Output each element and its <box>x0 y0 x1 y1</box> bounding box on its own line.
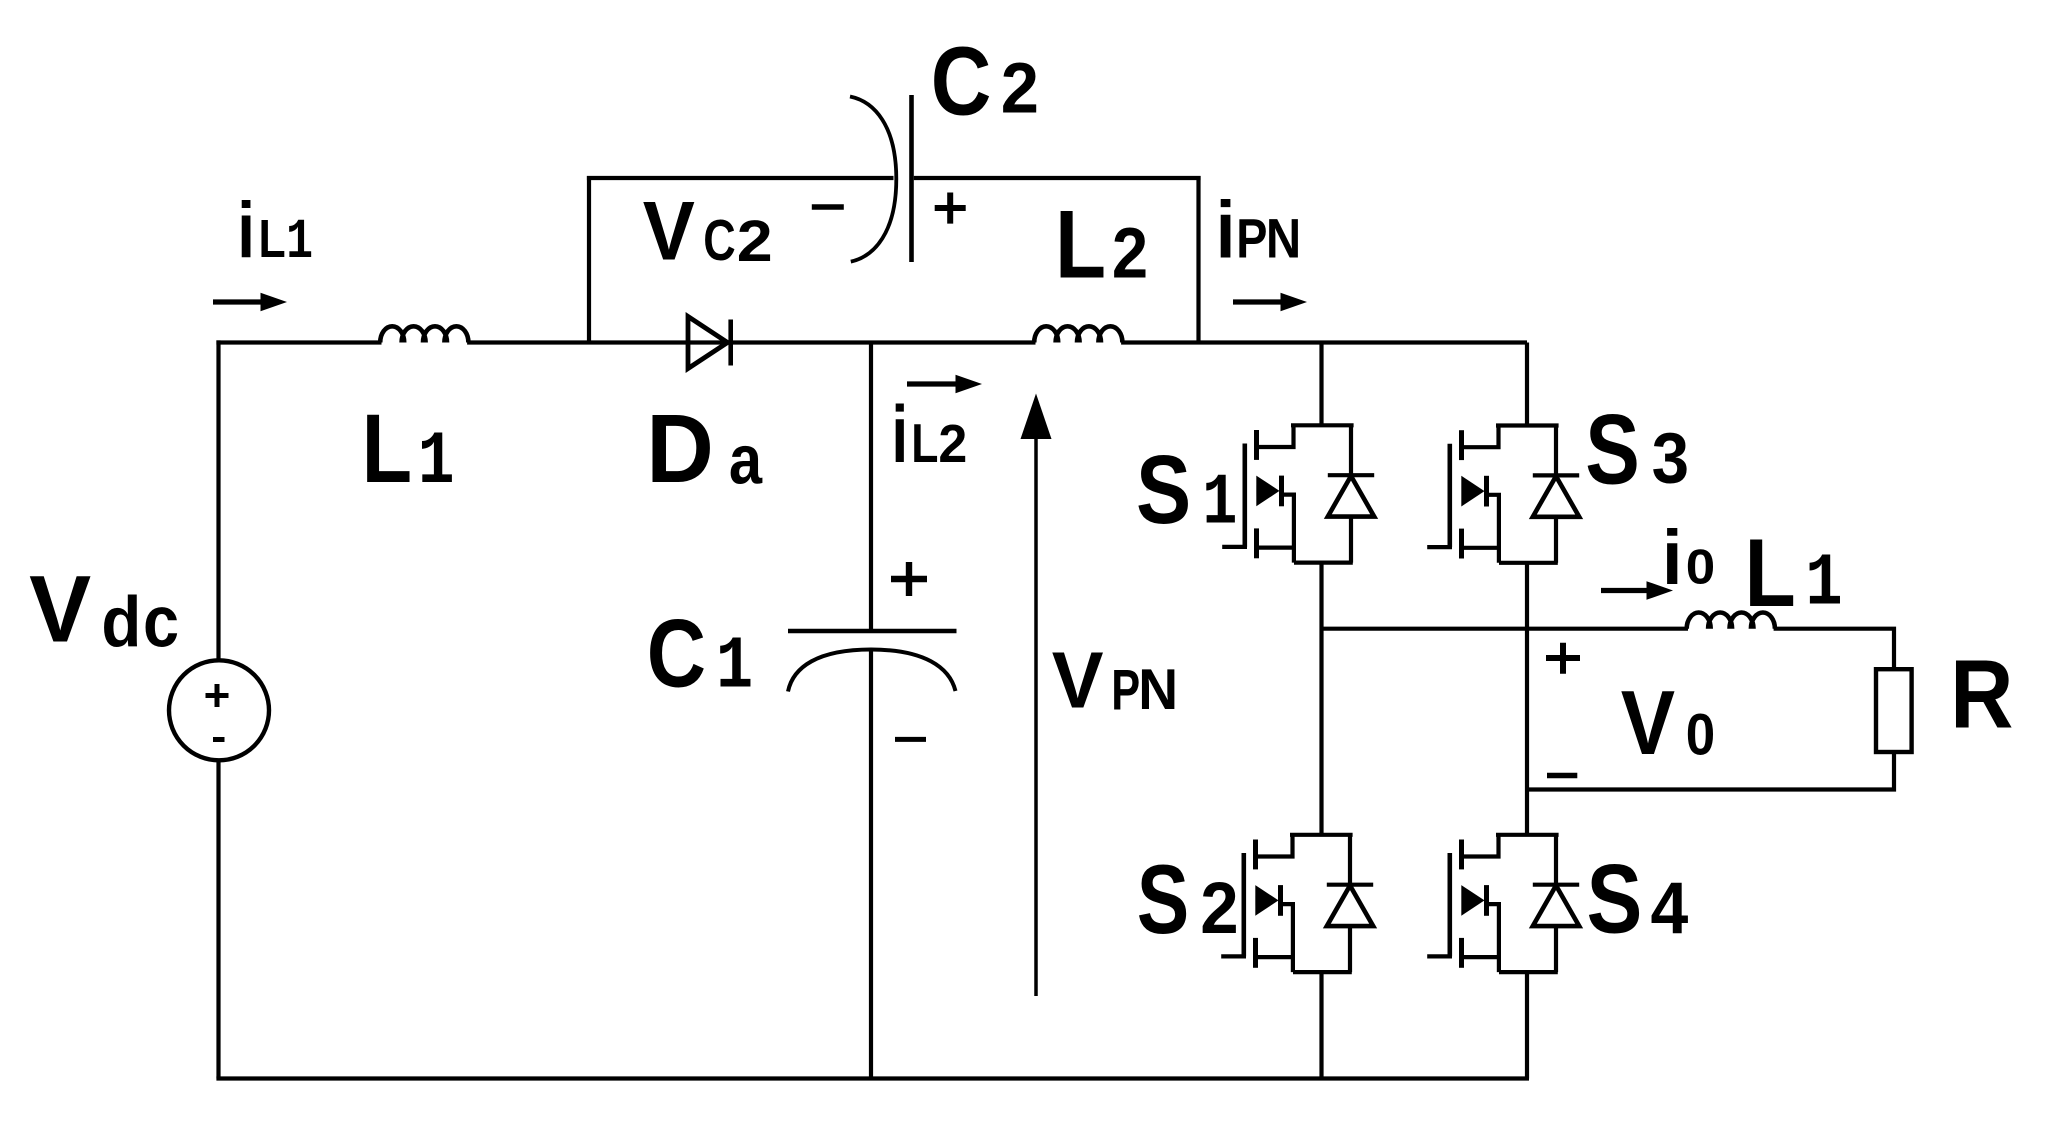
svg-text:1: 1 <box>418 420 455 506</box>
wire left leg drain stub <box>1319 343 1323 426</box>
svg-text:2: 2 <box>1001 47 1039 128</box>
svg-text:L: L <box>911 413 938 475</box>
svg-text:C: C <box>931 27 992 136</box>
wire top rail right segment <box>1121 340 1527 344</box>
svg-text:D: D <box>646 394 714 503</box>
V0 minus sign <box>1547 773 1577 779</box>
wire right leg drain stub <box>1525 343 1529 426</box>
wire left leg middle <box>1319 563 1323 835</box>
wire top rail middle segment <box>467 340 1035 344</box>
svg-text:2: 2 <box>737 209 773 274</box>
wire C1 branch upper <box>869 343 873 632</box>
svg-text:C: C <box>647 600 706 708</box>
svg-text:N: N <box>1266 209 1301 270</box>
svg-text:d: d <box>101 582 141 662</box>
inductor L1 <box>380 326 468 342</box>
capacitor C1 curved plate <box>788 650 956 692</box>
C1 plus sign <box>891 562 927 596</box>
wire right leg middle <box>1525 563 1529 835</box>
C2 plus sign <box>935 193 966 224</box>
svg-text:a: a <box>729 421 763 498</box>
svg-text:N: N <box>1138 657 1178 721</box>
svg-text:L: L <box>362 395 412 504</box>
svg-text:1: 1 <box>1805 543 1842 626</box>
svg-text:2: 2 <box>1112 214 1148 293</box>
svg-text:0: 0 <box>1686 701 1715 767</box>
wire C2-branch left vertical <box>587 176 591 345</box>
svg-text:V: V <box>1052 635 1104 724</box>
wire C2-branch top left segment <box>587 176 894 180</box>
svg-text:i: i <box>1662 515 1683 601</box>
svg-text:L: L <box>1745 520 1796 628</box>
svg-text:1: 1 <box>1202 462 1237 545</box>
wire C2-branch right vertical <box>1196 176 1200 345</box>
svg-text:2: 2 <box>1200 868 1238 949</box>
svg-text:S: S <box>1585 395 1640 505</box>
svg-text:S: S <box>1137 843 1189 953</box>
wire phase output left part <box>1322 627 1689 631</box>
svg-text:L: L <box>259 209 286 269</box>
transistor S3 <box>1427 426 1579 563</box>
transistor S1 <box>1222 425 1374 562</box>
wire right leg source stub <box>1525 972 1529 1079</box>
iL2 current arrow <box>907 381 960 386</box>
i0 current arrow <box>1601 588 1651 593</box>
svg-text:V: V <box>29 556 91 662</box>
svg-text:S: S <box>1136 436 1191 545</box>
transistor S2 <box>1221 835 1373 972</box>
svg-text:R: R <box>1950 639 2013 748</box>
wire phase output right part <box>1774 627 1894 670</box>
svg-text:P: P <box>1111 658 1140 722</box>
wire bottom rail <box>216 1076 1529 1080</box>
V0 plus sign <box>1546 643 1580 674</box>
wire left vertical above source <box>216 340 220 660</box>
inductor L2 <box>1034 326 1122 342</box>
svg-text:i: i <box>892 391 909 481</box>
svg-text:2: 2 <box>938 414 967 474</box>
wire R bottom to return <box>1527 752 1894 792</box>
voltage source Vdc <box>169 660 269 760</box>
svg-text:L: L <box>1055 191 1106 299</box>
C1 minus sign <box>895 737 926 742</box>
VPN voltage arrow <box>1034 437 1038 996</box>
svg-text:0: 0 <box>1686 539 1715 594</box>
wire C1 branch lower <box>869 649 873 1079</box>
capacitor C2 straight plate <box>909 95 914 262</box>
capacitor C1 straight plate <box>788 629 957 633</box>
wire C2-branch top right segment <box>914 176 1201 180</box>
iL1 current arrow <box>213 299 265 304</box>
svg-text:V: V <box>1621 673 1675 774</box>
svg-text:V: V <box>643 185 695 278</box>
diode Da triangle <box>688 317 728 369</box>
inductor L1 output <box>1687 613 1775 629</box>
svg-text:i: i <box>237 187 255 275</box>
svg-text:4: 4 <box>1651 868 1689 950</box>
iPN current arrow <box>1233 299 1285 304</box>
resistor R <box>1876 669 1912 752</box>
svg-text:1: 1 <box>286 212 313 275</box>
svg-text:3: 3 <box>1652 417 1689 497</box>
wire top rail left segment <box>216 340 381 344</box>
svg-text:S: S <box>1587 844 1643 954</box>
svg-text:C: C <box>703 208 735 273</box>
diode Da cathode bar <box>728 320 733 366</box>
svg-text:P: P <box>1236 207 1267 270</box>
wire left leg source stub <box>1319 972 1323 1079</box>
wire left vertical below source <box>216 760 220 1078</box>
C2 minus sign <box>812 204 844 210</box>
svg-text:i: i <box>1216 185 1236 275</box>
transistor S4 <box>1427 835 1579 972</box>
svg-text:c: c <box>143 581 179 662</box>
capacitor C2 curved plate <box>850 97 896 262</box>
svg-text:1: 1 <box>716 624 753 709</box>
